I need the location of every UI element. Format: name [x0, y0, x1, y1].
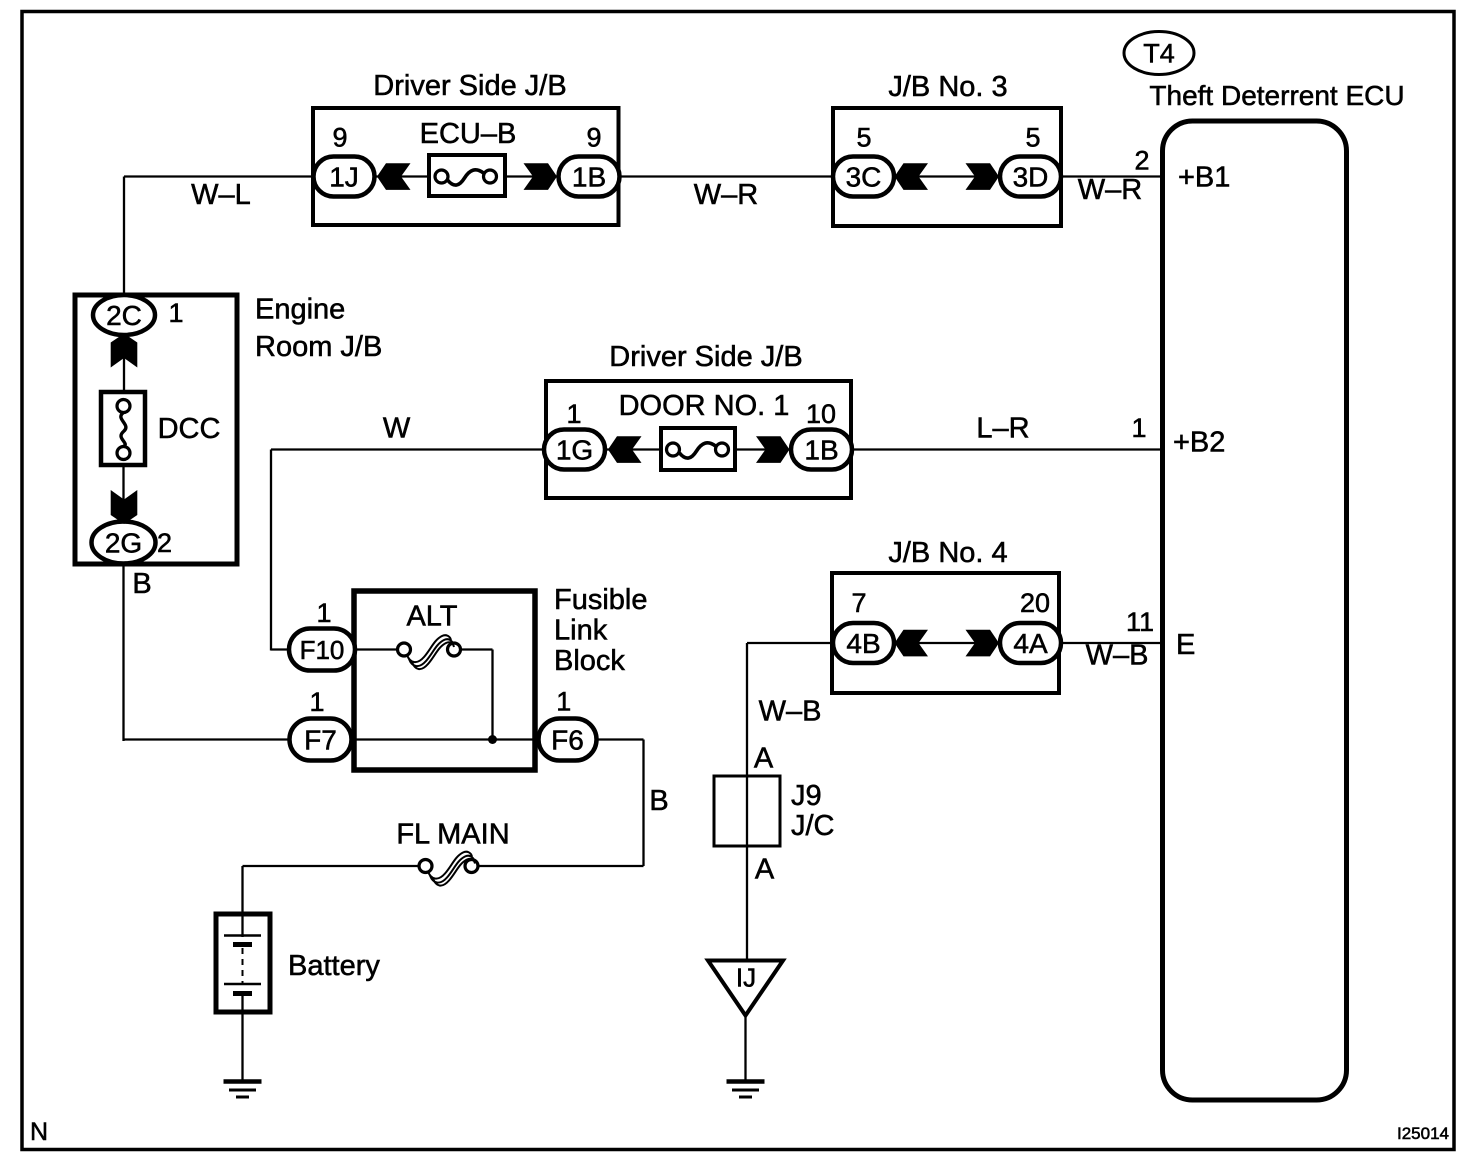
svg-text:E: E	[1176, 629, 1195, 661]
svg-text:W–B: W–B	[1086, 640, 1149, 672]
svg-text:T4: T4	[1143, 39, 1175, 69]
svg-text:Fusible: Fusible	[554, 584, 648, 616]
svg-text:9: 9	[586, 123, 601, 153]
svg-text:I25014: I25014	[1397, 1124, 1449, 1143]
svg-text:10: 10	[806, 399, 836, 429]
svg-text:L–R: L–R	[976, 413, 1029, 445]
svg-text:A: A	[755, 854, 775, 886]
svg-text:B: B	[649, 785, 668, 817]
svg-text:J/B No. 3: J/B No. 3	[888, 71, 1007, 103]
svg-text:W: W	[383, 413, 411, 445]
svg-text:Driver Side J/B: Driver Side J/B	[609, 341, 802, 373]
svg-text:N: N	[30, 1118, 48, 1146]
svg-text:F7: F7	[304, 725, 337, 756]
svg-text:W–B: W–B	[759, 696, 822, 728]
svg-text:Driver Side J/B: Driver Side J/B	[373, 70, 566, 102]
svg-text:5: 5	[1025, 123, 1040, 153]
svg-text:DOOR NO. 1: DOOR NO. 1	[619, 390, 790, 422]
svg-text:11: 11	[1126, 607, 1154, 637]
svg-text:1: 1	[309, 687, 324, 717]
svg-text:1: 1	[168, 298, 183, 328]
svg-text:Room J/B: Room J/B	[255, 331, 382, 363]
svg-text:4B: 4B	[846, 628, 880, 659]
svg-text:Link: Link	[554, 615, 608, 647]
svg-text:Theft Deterrent ECU: Theft Deterrent ECU	[1149, 80, 1404, 111]
svg-text:7: 7	[851, 588, 866, 618]
svg-text:3C: 3C	[846, 162, 882, 193]
svg-text:J9: J9	[791, 780, 822, 812]
svg-text:1: 1	[566, 399, 581, 429]
svg-text:2G: 2G	[105, 528, 142, 559]
svg-text:+B2: +B2	[1173, 427, 1225, 459]
svg-text:1: 1	[316, 598, 331, 628]
svg-text:W–L: W–L	[191, 179, 251, 211]
svg-text:ALT: ALT	[406, 601, 457, 633]
svg-text:1: 1	[556, 687, 571, 717]
svg-text:Block: Block	[554, 645, 625, 677]
svg-text:2: 2	[157, 528, 172, 558]
svg-text:1: 1	[1131, 413, 1146, 443]
svg-text:ECU–B: ECU–B	[420, 118, 517, 150]
svg-text:3D: 3D	[1013, 162, 1049, 193]
svg-text:W–R: W–R	[694, 179, 758, 211]
svg-text:F6: F6	[551, 725, 584, 756]
svg-text:4A: 4A	[1013, 628, 1048, 659]
svg-text:J/C: J/C	[791, 810, 835, 842]
svg-text:2: 2	[1134, 146, 1149, 176]
svg-text:Battery: Battery	[288, 950, 380, 982]
svg-text:20: 20	[1020, 588, 1050, 618]
svg-text:+B1: +B1	[1178, 162, 1230, 194]
svg-text:FL MAIN: FL MAIN	[396, 819, 509, 851]
svg-text:9: 9	[332, 123, 347, 153]
svg-text:1J: 1J	[329, 162, 359, 193]
svg-text:DCC: DCC	[158, 413, 221, 445]
svg-text:1G: 1G	[556, 435, 593, 466]
svg-text:IJ: IJ	[736, 963, 756, 993]
svg-text:B: B	[132, 568, 151, 600]
svg-text:5: 5	[856, 123, 871, 153]
svg-text:2C: 2C	[106, 300, 142, 331]
svg-text:J/B No. 4: J/B No. 4	[888, 537, 1007, 569]
svg-text:A: A	[754, 743, 774, 775]
svg-text:Engine: Engine	[255, 294, 345, 326]
svg-text:1B: 1B	[572, 162, 606, 193]
svg-text:F10: F10	[300, 635, 345, 665]
svg-text:1B: 1B	[804, 435, 838, 466]
svg-text:W–R: W–R	[1078, 174, 1142, 206]
